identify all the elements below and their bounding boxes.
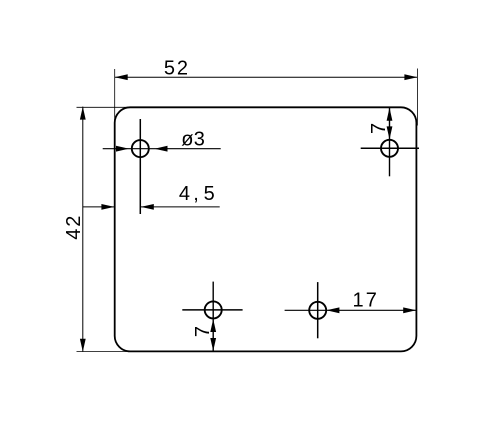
dimension 4,5 arrow at hole centerline (points left) (141, 204, 154, 210)
centerline H1 horizontal + leader of dia3 (103, 148, 221, 150)
dimension 52 arrow right (404, 74, 417, 80)
plate outline (115, 107, 417, 351)
centerline H2 vertical / dim 7 shaft (389, 108, 391, 177)
extension line 42 top (77, 106, 133, 108)
dimension 42 arrow down (80, 339, 86, 352)
centerline H3 horizontal (182, 309, 242, 311)
dimension 42 arrow up (80, 107, 86, 120)
dimension 17 arrow left (tip at hole, points left) (326, 307, 339, 313)
dimension 7 bottom-left arrow down (tip at bottom edge) (210, 338, 216, 351)
dimension 42 line (82, 107, 84, 352)
svg-text:ø3: ø3 (181, 129, 205, 151)
centerline H1 vertical (139, 119, 141, 214)
centerline H4 vertical (317, 282, 319, 338)
centerline H3 vertical / dim 7 shaft (212, 282, 214, 352)
extension line 52 right (416, 69, 418, 126)
dimension 17 arrow right (tip at plate edge, points right) (403, 307, 416, 313)
dimension 52 arrow left (115, 74, 128, 80)
dimension 4,5 arrow at plate edge (points right) (101, 204, 114, 210)
dimension dia3 arrow left (points right at hole) (116, 146, 129, 152)
hole H2 (top-right) (381, 140, 398, 157)
dimension 4,5 line left segment (83, 206, 115, 208)
hole H3 (bottom-left) (205, 301, 222, 318)
extension line 52 left (114, 69, 116, 123)
dimension dia3 arrow right (points left at hole) (155, 146, 168, 152)
dimension 4,5 line right segment (141, 206, 220, 208)
centerline H4 horizontal / dim 17 line (285, 309, 417, 311)
dimension 7 bottom-left arrow up (tip at hole) (210, 319, 216, 332)
dimension 52 line (115, 76, 418, 78)
svg-text:7: 7 (192, 326, 214, 337)
svg-text:52: 52 (164, 57, 188, 79)
hole H4 (bottom-right) (309, 302, 326, 319)
svg-text:4,5: 4,5 (179, 183, 215, 205)
dimension 7 top-right arrow up (tip at top edge) (387, 108, 393, 121)
svg-text:42: 42 (63, 214, 85, 240)
extension line 42 bottom (77, 351, 128, 353)
dimension 7 top-right arrow down (tip at hole) (387, 126, 393, 139)
hole H1 (top-left) (132, 140, 149, 157)
svg-text:7: 7 (368, 123, 390, 134)
centerline H2 horizontal (361, 147, 419, 149)
